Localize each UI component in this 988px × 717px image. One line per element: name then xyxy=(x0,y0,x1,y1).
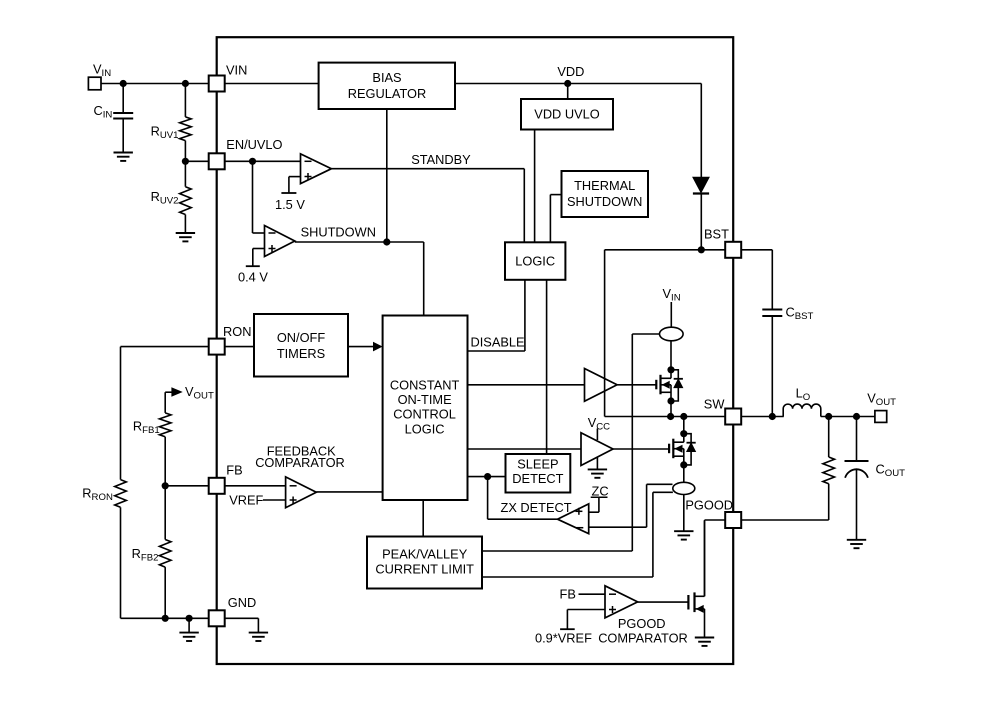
wire current limit out 1 xyxy=(482,550,632,552)
svg-text:EN/UVLO: EN/UVLO xyxy=(226,137,282,152)
pin FB xyxy=(209,463,243,494)
svg-text:STANDBY: STANDBY xyxy=(411,152,471,167)
ground COUT xyxy=(847,540,866,548)
pin VIN xyxy=(209,63,248,92)
wire FB to comparator xyxy=(225,485,286,487)
label VCC xyxy=(588,415,610,433)
wire LS sense tap xyxy=(653,492,673,577)
svg-text:SLEEP: SLEEP xyxy=(517,456,558,471)
svg-text:SHUTDOWN: SHUTDOWN xyxy=(301,225,376,240)
wire FB pgood xyxy=(579,593,606,595)
svg-text:PEAK/VALLEY: PEAK/VALLEY xyxy=(382,546,468,561)
block VDD UVLO xyxy=(521,99,613,130)
node FB junction xyxy=(162,482,169,489)
wire LS source to sense xyxy=(683,465,685,482)
label 0.4 V xyxy=(238,270,268,285)
ground GND pin xyxy=(249,633,268,641)
wire RON external xyxy=(121,346,209,348)
pin BST xyxy=(725,242,741,258)
wire feedback comp out xyxy=(316,491,382,493)
label FEEDBACK xyxy=(267,443,336,458)
label 1.5 V xyxy=(275,197,305,212)
wire logic to sleep detect xyxy=(546,280,548,454)
resistor RUV1 xyxy=(180,84,192,162)
wire LS driver ground xyxy=(596,457,598,469)
label VOUT sense xyxy=(185,384,214,402)
svg-text:PGOOD: PGOOD xyxy=(685,498,733,513)
svg-text:DISABLE: DISABLE xyxy=(471,335,525,350)
wire HS gate xyxy=(617,384,656,386)
wire VREF xyxy=(263,499,286,501)
op-amp HS gate driver xyxy=(585,369,618,402)
wire current limit out 2 xyxy=(482,576,653,578)
diode bootstrap xyxy=(693,177,709,193)
inductor LO xyxy=(783,404,821,416)
svg-text:LOGIC: LOGIC xyxy=(515,254,555,269)
node CBST SW xyxy=(769,413,776,420)
wire ZX minus xyxy=(589,484,673,527)
svg-text:CONSTANT: CONSTANT xyxy=(390,377,460,392)
node VOUT cap xyxy=(853,413,860,420)
svg-text:COMPARATOR: COMPARATOR xyxy=(255,455,345,470)
capacitor COUT xyxy=(845,417,869,540)
label CBST xyxy=(786,305,814,323)
label RUV2 xyxy=(151,189,179,207)
wire VIN internal xyxy=(670,302,672,327)
svg-text:1.5 V: 1.5 V xyxy=(275,197,305,212)
label SW xyxy=(704,396,726,411)
wire SW line xyxy=(605,416,726,418)
svg-text:CURRENT LIMIT: CURRENT LIMIT xyxy=(375,561,474,576)
label COUT xyxy=(876,462,906,480)
node RUV1 RUV2 junction xyxy=(182,158,189,165)
wire VDD UVLO to logic xyxy=(534,130,536,243)
svg-text:RON: RON xyxy=(223,324,251,339)
block BIAS REGULATOR xyxy=(319,63,455,109)
block SLEEP DETECT xyxy=(506,454,571,493)
svg-text:COMPARATOR: COMPARATOR xyxy=(598,631,688,646)
ground PGOOD FET xyxy=(695,638,714,646)
ground LS sense xyxy=(674,531,693,539)
wire logic to disable xyxy=(468,280,525,351)
wire COT to sleep detect xyxy=(468,476,506,478)
block LOGIC xyxy=(505,242,565,279)
label VIN internal xyxy=(663,286,681,304)
IC boundary xyxy=(217,37,734,664)
reference bar 0.4V xyxy=(246,265,260,267)
svg-text:ON-TIME: ON-TIME xyxy=(398,392,452,407)
wire LS gate xyxy=(613,448,669,450)
svg-text:ZX DETECT: ZX DETECT xyxy=(501,500,572,515)
svg-text:TIMERS: TIMERS xyxy=(277,346,325,361)
svg-text:THERMAL: THERMAL xyxy=(574,178,635,193)
svg-text:CONTROL: CONTROL xyxy=(393,407,456,422)
wire VDD UVLO top xyxy=(567,84,569,100)
svg-text:DETECT: DETECT xyxy=(512,471,563,486)
wire sense to ground xyxy=(683,495,685,532)
node sleep branch xyxy=(484,473,491,480)
wire STANDBY xyxy=(331,169,524,243)
label 0.9*VREF xyxy=(535,631,592,646)
block CONSTANT ON-TIME CONTROL LOGIC xyxy=(383,316,468,501)
label PGOOD comparator xyxy=(618,616,666,631)
block PEAK/VALLEY CURRENT LIMIT xyxy=(367,537,482,589)
current source HS xyxy=(660,327,684,341)
node shutdown junction xyxy=(383,238,390,245)
transistor LS FET xyxy=(669,434,696,465)
op-amp standby comparator xyxy=(301,154,332,184)
wire BST to SW rail xyxy=(605,250,702,417)
svg-text:GND: GND xyxy=(228,595,256,610)
svg-text:VDD: VDD xyxy=(557,64,584,79)
label BST xyxy=(704,227,729,242)
svg-text:LOGIC: LOGIC xyxy=(405,422,445,437)
block THERMAL SHUTDOWN xyxy=(562,171,649,217)
label RFB2 xyxy=(132,546,159,564)
node RUV1 top xyxy=(182,80,189,87)
svg-text:VIN: VIN xyxy=(226,63,247,78)
reference bar 0.9VREF xyxy=(560,628,575,630)
svg-text:BST: BST xyxy=(704,227,729,242)
current sense LS xyxy=(673,482,695,494)
op-amp LS gate driver xyxy=(581,433,613,466)
label RRON xyxy=(82,486,113,504)
label VIN supply xyxy=(93,62,111,80)
resistor RUV2 xyxy=(180,161,192,233)
wire VCC stub xyxy=(596,429,598,441)
wire BST rail xyxy=(701,249,741,251)
wire bias to shutdown xyxy=(386,109,388,242)
label PGOOD pin xyxy=(685,498,733,513)
reference bar 1.5V xyxy=(281,192,296,194)
node HS source xyxy=(667,397,674,404)
block ON/OFF TIMERS xyxy=(254,314,348,377)
pin SW xyxy=(725,409,741,425)
ground LS driver xyxy=(588,469,607,477)
node CIN junction xyxy=(120,80,127,87)
label FB pgood xyxy=(560,586,576,601)
transistor HS FET xyxy=(656,370,683,401)
wire VIN to bias regulator xyxy=(225,83,319,85)
wire 0.9VREF xyxy=(567,610,605,630)
resistor RRON xyxy=(115,347,127,619)
node EN junction xyxy=(249,158,256,165)
wire VIN input xyxy=(101,83,209,85)
svg-text:ON/OFF: ON/OFF xyxy=(277,330,326,345)
wire oval to drain xyxy=(670,341,672,370)
node VDD junction xyxy=(564,80,571,87)
op-amp shutdown comparator xyxy=(265,226,295,257)
label ZX DETECT xyxy=(501,500,572,515)
svg-text:0.9*VREF: 0.9*VREF xyxy=(535,631,592,646)
wire HS source to SW xyxy=(670,401,672,417)
pin GND xyxy=(209,595,257,626)
wire PGOOD net xyxy=(705,520,726,596)
resistor PGOOD pullup xyxy=(742,417,835,521)
wire timers to COT xyxy=(348,343,382,351)
pin PGOOD xyxy=(725,512,741,528)
label LO xyxy=(796,386,811,404)
terminal VIN xyxy=(88,77,101,90)
label COMPARATOR xyxy=(255,455,345,470)
node RFB2 bottom xyxy=(162,615,169,622)
pin RON xyxy=(209,324,252,355)
label RUV1 xyxy=(151,124,179,142)
svg-text:BIAS: BIAS xyxy=(372,70,401,85)
svg-text:VDD UVLO: VDD UVLO xyxy=(534,107,599,122)
svg-text:SW: SW xyxy=(704,396,726,411)
wire GND external xyxy=(121,617,209,619)
svg-text:ZC: ZC xyxy=(592,483,609,498)
label COMPARATOR pgood xyxy=(598,631,688,646)
node LS source xyxy=(680,461,687,468)
wire ZC to ZX plus xyxy=(589,497,599,512)
resistor RFB2 xyxy=(159,486,171,619)
op-amp feedback comparator xyxy=(286,477,317,508)
capacitor CIN xyxy=(113,84,133,153)
svg-text:0.4 V: 0.4 V xyxy=(238,270,268,285)
svg-text:PGOOD: PGOOD xyxy=(618,616,666,631)
svg-text:FB: FB xyxy=(226,463,242,478)
wire thermal to logic xyxy=(550,195,561,243)
op-amp PGOOD comparator xyxy=(605,586,638,618)
label DISABLE xyxy=(471,335,525,350)
label STANDBY xyxy=(411,152,471,167)
ground external left xyxy=(179,633,198,641)
wire 1.5V ref xyxy=(289,177,301,193)
svg-text:FB: FB xyxy=(560,586,576,601)
resistor RFB1 xyxy=(159,413,171,486)
transistor PGOOD FET xyxy=(688,521,704,638)
label RFB1 xyxy=(133,419,160,437)
terminal VOUT xyxy=(875,411,887,423)
wire FB external xyxy=(165,485,209,487)
wire COT to HS driver xyxy=(468,384,585,386)
wire SW to LS drain xyxy=(683,417,685,434)
label CIN xyxy=(94,103,113,121)
wire RON to timers xyxy=(225,346,254,348)
node SW HS xyxy=(667,413,674,420)
node ground branch xyxy=(186,615,193,622)
wire GND pin right xyxy=(225,618,259,632)
ground RUV2 xyxy=(176,233,195,241)
wire SHUTDOWN xyxy=(295,242,424,316)
wire 0.4V ref xyxy=(253,249,265,267)
svg-text:VREF: VREF xyxy=(229,493,263,508)
wire VOUT sense xyxy=(165,388,181,413)
wire HS sense xyxy=(632,334,659,551)
node HS drain xyxy=(667,366,674,373)
capacitor CBST xyxy=(742,250,783,417)
wire EN/UVLO xyxy=(185,160,300,162)
op-amp ZX comparator xyxy=(558,504,589,534)
node VOUT res xyxy=(825,413,832,420)
node BST junction xyxy=(698,246,705,253)
node LS drain xyxy=(680,430,687,437)
label VDD xyxy=(557,64,584,79)
wire COT to current limit xyxy=(422,500,424,537)
pin EN/UVLO xyxy=(209,137,283,169)
svg-text:SHUTDOWN: SHUTDOWN xyxy=(567,194,642,209)
wire PGOOD gate xyxy=(638,601,689,603)
label VREF xyxy=(229,493,263,508)
wire ground stub xyxy=(188,618,190,632)
label ZC xyxy=(591,483,609,498)
wire LO to VOUT xyxy=(821,416,875,418)
svg-text:REGULATOR: REGULATOR xyxy=(348,86,426,101)
node SW LS xyxy=(680,413,687,420)
wire EN vertical to shutdown comp xyxy=(253,161,265,233)
wire VDD rail xyxy=(455,84,701,250)
wire SW external xyxy=(742,416,784,418)
label VOUT terminal xyxy=(867,391,896,409)
wire sleep branch to ZX out xyxy=(488,477,558,520)
wire COT to LS driver xyxy=(468,448,582,450)
label SHUTDOWN xyxy=(301,225,376,240)
ground CIN xyxy=(114,153,133,161)
